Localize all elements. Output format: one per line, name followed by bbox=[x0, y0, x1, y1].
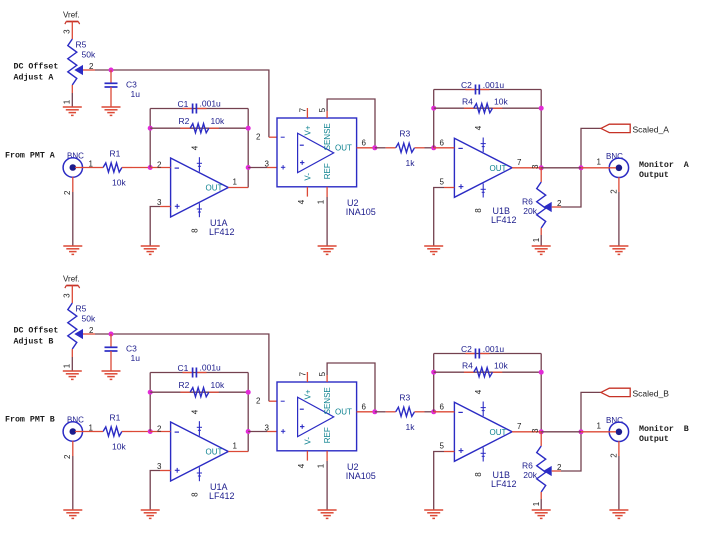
svg-text:1k: 1k bbox=[406, 158, 416, 168]
svg-text:C2: C2 bbox=[461, 80, 472, 90]
svg-text:3: 3 bbox=[62, 29, 71, 34]
svg-text:1: 1 bbox=[597, 157, 602, 166]
svg-text:V+: V+ bbox=[303, 125, 312, 135]
svg-text:1u: 1u bbox=[131, 89, 141, 99]
svg-text:R3: R3 bbox=[399, 129, 410, 139]
svg-text:INA105: INA105 bbox=[346, 207, 376, 217]
svg-text:.001u: .001u bbox=[200, 99, 222, 109]
svg-text:6: 6 bbox=[362, 138, 367, 147]
svg-text:2: 2 bbox=[63, 190, 72, 195]
svg-text:.001u: .001u bbox=[483, 80, 505, 90]
svg-text:1: 1 bbox=[62, 99, 71, 104]
svg-text:R2: R2 bbox=[179, 116, 190, 126]
svg-text:From PMT A: From PMT A bbox=[5, 152, 55, 161]
svg-text:3: 3 bbox=[531, 164, 540, 169]
svg-text:SENSE: SENSE bbox=[323, 123, 332, 150]
svg-text:7: 7 bbox=[517, 158, 522, 167]
svg-text:Scaled_A: Scaled_A bbox=[633, 124, 670, 134]
svg-text:2: 2 bbox=[157, 160, 162, 169]
svg-text:10k: 10k bbox=[211, 116, 225, 126]
svg-text:1: 1 bbox=[317, 199, 326, 204]
svg-text:1: 1 bbox=[89, 160, 94, 169]
svg-text:C1: C1 bbox=[178, 99, 189, 109]
svg-text:From PMT B: From PMT B bbox=[5, 416, 55, 425]
svg-text:4: 4 bbox=[191, 145, 200, 150]
svg-text:5: 5 bbox=[440, 178, 445, 187]
svg-text:LF412: LF412 bbox=[491, 215, 517, 225]
svg-text:50k: 50k bbox=[82, 50, 96, 60]
svg-text:LF412: LF412 bbox=[209, 227, 235, 237]
svg-text:10k: 10k bbox=[494, 96, 508, 106]
svg-text:Vref.: Vref. bbox=[63, 11, 80, 20]
svg-text:4: 4 bbox=[474, 125, 483, 130]
svg-text:Adjust B: Adjust B bbox=[14, 336, 54, 346]
svg-text:C3: C3 bbox=[126, 80, 137, 90]
svg-text:20k: 20k bbox=[523, 206, 537, 216]
svg-text:6: 6 bbox=[440, 138, 445, 147]
svg-text:3: 3 bbox=[265, 159, 270, 168]
svg-text:1: 1 bbox=[532, 237, 541, 242]
svg-text:Output: Output bbox=[639, 171, 669, 180]
svg-text:1: 1 bbox=[233, 177, 238, 186]
svg-text:8: 8 bbox=[190, 228, 199, 233]
svg-text:V-: V- bbox=[303, 173, 312, 181]
svg-text:3: 3 bbox=[157, 198, 162, 207]
svg-text:Adjust A: Adjust A bbox=[14, 72, 54, 82]
svg-text:Monitor B: Monitor B bbox=[639, 424, 689, 434]
svg-text:10k: 10k bbox=[112, 177, 126, 187]
svg-text:7: 7 bbox=[299, 107, 308, 112]
svg-text:4: 4 bbox=[297, 199, 306, 204]
svg-text:R1: R1 bbox=[110, 148, 121, 158]
svg-text:2: 2 bbox=[256, 132, 261, 141]
svg-text:OUT: OUT bbox=[206, 184, 223, 193]
svg-text:R5: R5 bbox=[76, 40, 87, 50]
svg-text:Monitor A: Monitor A bbox=[639, 160, 689, 170]
svg-text:8: 8 bbox=[474, 208, 483, 213]
svg-text:OUT: OUT bbox=[335, 144, 352, 153]
svg-text:OUT: OUT bbox=[490, 164, 507, 173]
svg-text:5: 5 bbox=[318, 107, 327, 112]
svg-text:R4: R4 bbox=[462, 96, 473, 106]
svg-text:REF: REF bbox=[323, 163, 332, 179]
svg-text:DC Offset: DC Offset bbox=[14, 61, 59, 71]
svg-text:2: 2 bbox=[609, 189, 618, 194]
svg-text:Scaled_B: Scaled_B bbox=[633, 388, 670, 398]
